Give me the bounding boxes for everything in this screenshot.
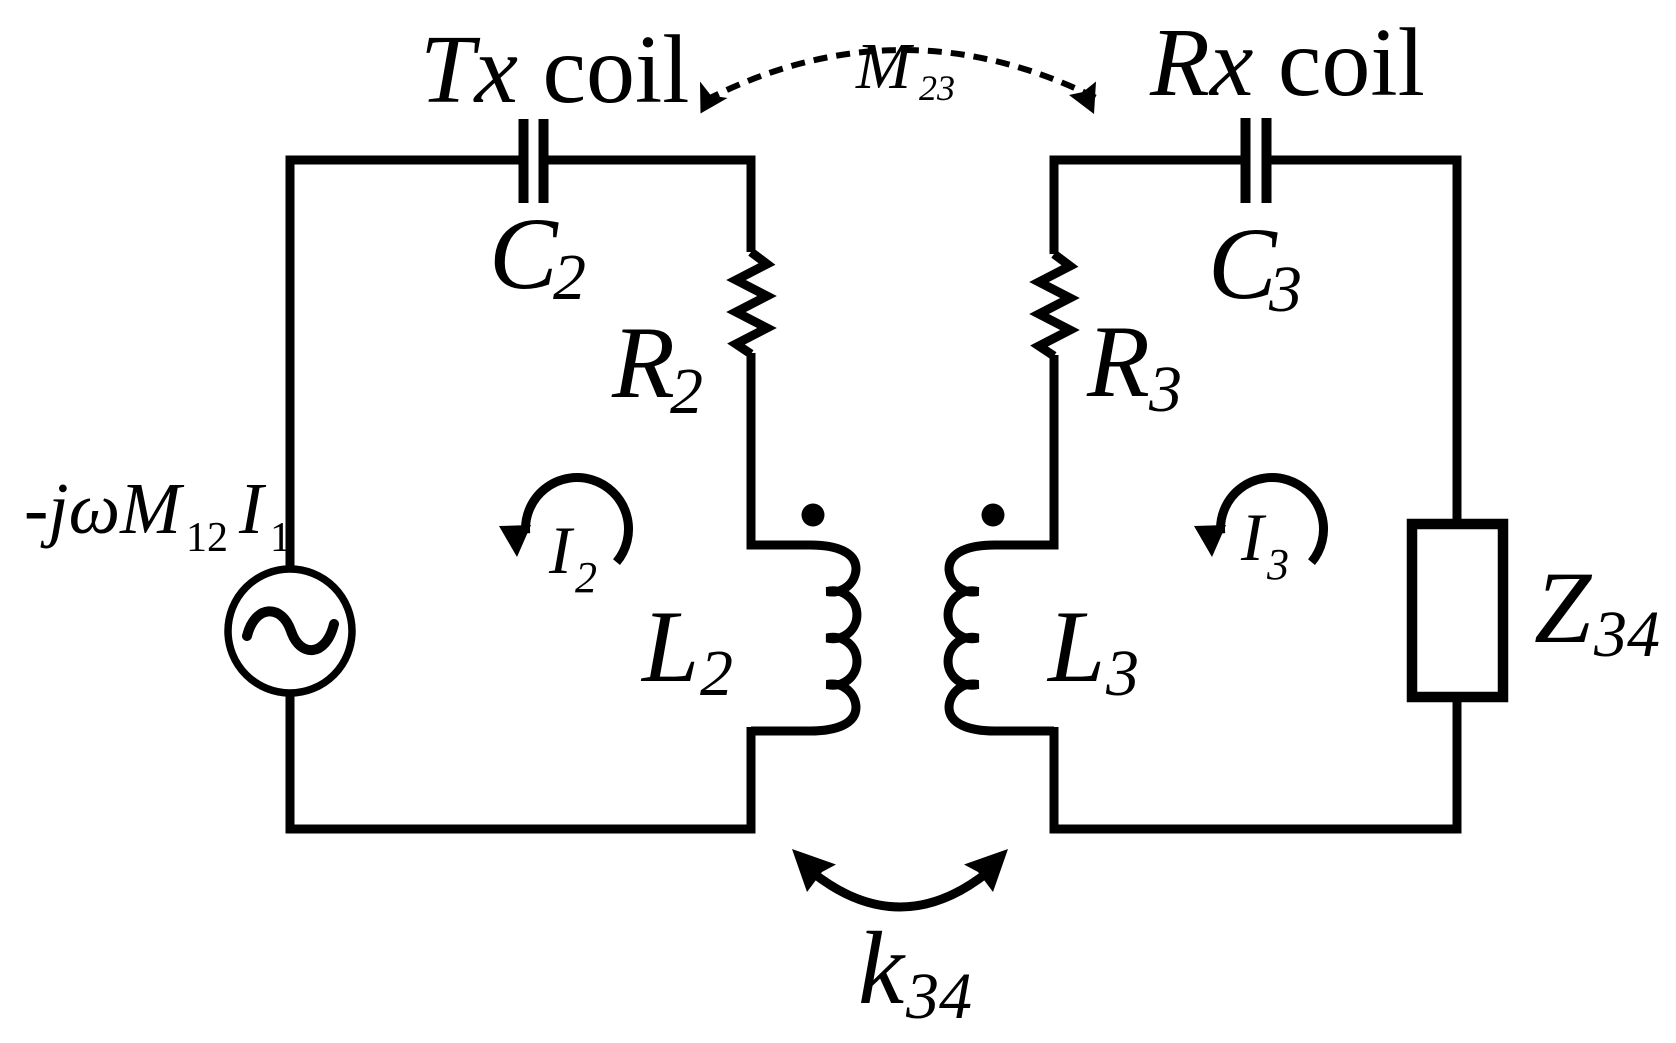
svg-text:23: 23 [919, 68, 955, 108]
svg-text:12: 12 [186, 515, 228, 561]
capacitor C2 [524, 119, 544, 203]
svg-text:2: 2 [575, 553, 597, 602]
svg-text:3: 3 [1148, 353, 1182, 426]
svg-text:I: I [1240, 499, 1267, 575]
wire: Z34 bottom to bottom-right corner [1453, 702, 1462, 834]
wire: bottom of left loop [286, 825, 756, 834]
dot L2 [802, 504, 825, 527]
svg-text:2: 2 [670, 355, 703, 428]
I2 loop arrow [499, 478, 629, 563]
svg-text:34: 34 [1593, 598, 1660, 671]
svg-text:R: R [1086, 305, 1150, 419]
wire: C2 right plate to top-right corner of left loop down to R2 [548, 160, 751, 252]
M23 dashed coupling arc [706, 50, 1100, 100]
wire: source bottom to bottom-left corner [286, 692, 295, 834]
svg-text:R: R [611, 306, 675, 420]
svg-text:I: I [238, 468, 267, 549]
svg-text:2: 2 [553, 241, 586, 314]
wire: L2 bottom to bottom wire [747, 727, 756, 829]
source sine [247, 611, 334, 650]
M23 arrowhead left [700, 82, 728, 114]
svg-text:1: 1 [270, 515, 291, 561]
wire: R3 to L3 [1050, 355, 1059, 550]
capacitor C3 [1246, 118, 1267, 203]
svg-text:k: k [858, 911, 906, 1026]
I3 loop arrow [1194, 478, 1324, 563]
wire: R2 to L2 [747, 353, 756, 550]
svg-text:2: 2 [700, 637, 733, 710]
wire: bottom of right loop [1050, 825, 1462, 834]
dot L3 [982, 504, 1005, 527]
wire: C3 left plate to top-left corner of right loop down to R3 [1054, 160, 1241, 254]
M23 arrowhead right [1069, 82, 1096, 115]
svg-text:C: C [1208, 207, 1278, 321]
wire: C3 right plate to top-right corner down to Z34 [1271, 160, 1457, 519]
svg-text:3: 3 [1268, 253, 1302, 326]
k34 arrowhead left [792, 849, 836, 892]
resistor R2 [736, 252, 767, 354]
impedance Z34 box [1412, 524, 1503, 697]
inductor L3 [948, 545, 1054, 731]
svg-text:3: 3 [1266, 540, 1289, 589]
k34 coupling arc [812, 872, 988, 907]
svg-text:M: M [855, 30, 915, 103]
resistor R3 [1039, 254, 1070, 356]
svg-text:L: L [640, 590, 699, 704]
svg-text:3: 3 [1105, 637, 1139, 710]
wire: L3 bottom to bottom wire [1050, 727, 1059, 834]
svg-text:-jωM: -jωM [24, 468, 185, 549]
k34 arrowhead right [964, 849, 1008, 892]
svg-text:Z: Z [1534, 551, 1593, 665]
source U1 circle [228, 569, 352, 693]
svg-text:Tx coil: Tx coil [420, 16, 689, 124]
svg-text:C: C [489, 197, 559, 311]
wire: C2 left plate to top-left corner down to source top [290, 160, 519, 570]
svg-text:L: L [1046, 590, 1105, 704]
inductor L2 [751, 545, 857, 731]
svg-text:Rx coil: Rx coil [1149, 9, 1425, 117]
svg-text:I: I [548, 512, 575, 588]
svg-text:34: 34 [905, 960, 972, 1033]
